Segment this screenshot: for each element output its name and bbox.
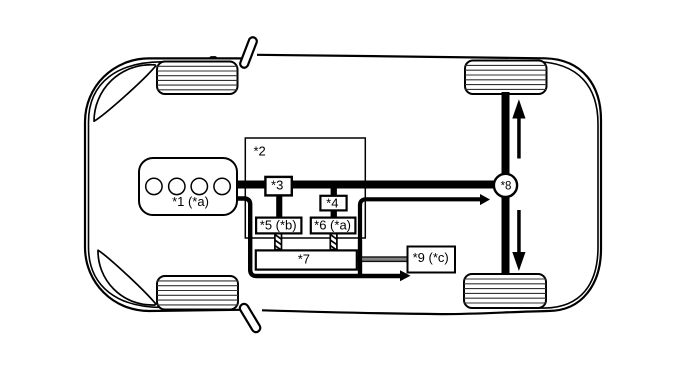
thick stub bar to *4: [331, 188, 337, 197]
node circle *8: [494, 174, 517, 197]
thin vertical over gray bar: [358, 240, 362, 274]
car body inner line front: [89, 62, 163, 308]
svg-text:*9 (*c): *9 (*c): [413, 250, 449, 265]
bottom arrowhead: [400, 270, 411, 281]
hatched connector below *6: [330, 233, 337, 250]
svg-text:*7: *7: [298, 251, 310, 266]
arrowhead to *8: [480, 194, 490, 205]
thick stub *4 to *6: [331, 210, 337, 219]
thin branch up to *8 arrow: [360, 199, 480, 274]
svg-text:*5 (*b): *5 (*b): [260, 217, 297, 232]
svg-text:*1 (*a): *1 (*a): [172, 194, 209, 209]
car body outer outline front section: [85, 58, 242, 311]
box *6: [311, 217, 356, 233]
svg-text:*6 (*a): *6 (*a): [314, 217, 351, 232]
box *2 outline: [245, 138, 365, 238]
wheel front-bottom: [157, 276, 238, 310]
svg-text:*2: *2: [254, 144, 266, 159]
gray bar *7 to *9: [358, 257, 408, 261]
down arrow near rear axle: [517, 210, 521, 253]
car body outer outline rear section: [257, 55, 601, 314]
svg-text:*3: *3: [271, 178, 283, 193]
roof seam mark top: [210, 57, 218, 58]
up arrow near rear axle: [517, 117, 521, 159]
hatched connector below *5: [275, 233, 282, 250]
thick drive bar engine to *8: [232, 181, 498, 189]
box *3: [265, 177, 291, 196]
mirror bottom: [238, 302, 262, 333]
svg-text:*4: *4: [326, 196, 338, 211]
box *5: [256, 217, 301, 233]
engine *1: [139, 158, 237, 215]
wheel rear-bottom: [464, 274, 546, 308]
car body inner line rear: [498, 61, 598, 308]
thick stub *3 to *5: [276, 194, 282, 219]
wheel front-top: [157, 62, 238, 95]
box *7: [256, 250, 357, 269]
front upper fender crescent: [94, 65, 156, 121]
svg-text:*8: *8: [501, 181, 512, 193]
thin line path engine-down-right: [236, 199, 400, 277]
front lower fender crescent: [98, 250, 156, 305]
box *4: [320, 196, 346, 211]
mirror top: [239, 36, 258, 69]
rear axle thick bar: [502, 92, 510, 275]
wheel rear-top: [465, 61, 547, 95]
box *9: [408, 247, 456, 273]
